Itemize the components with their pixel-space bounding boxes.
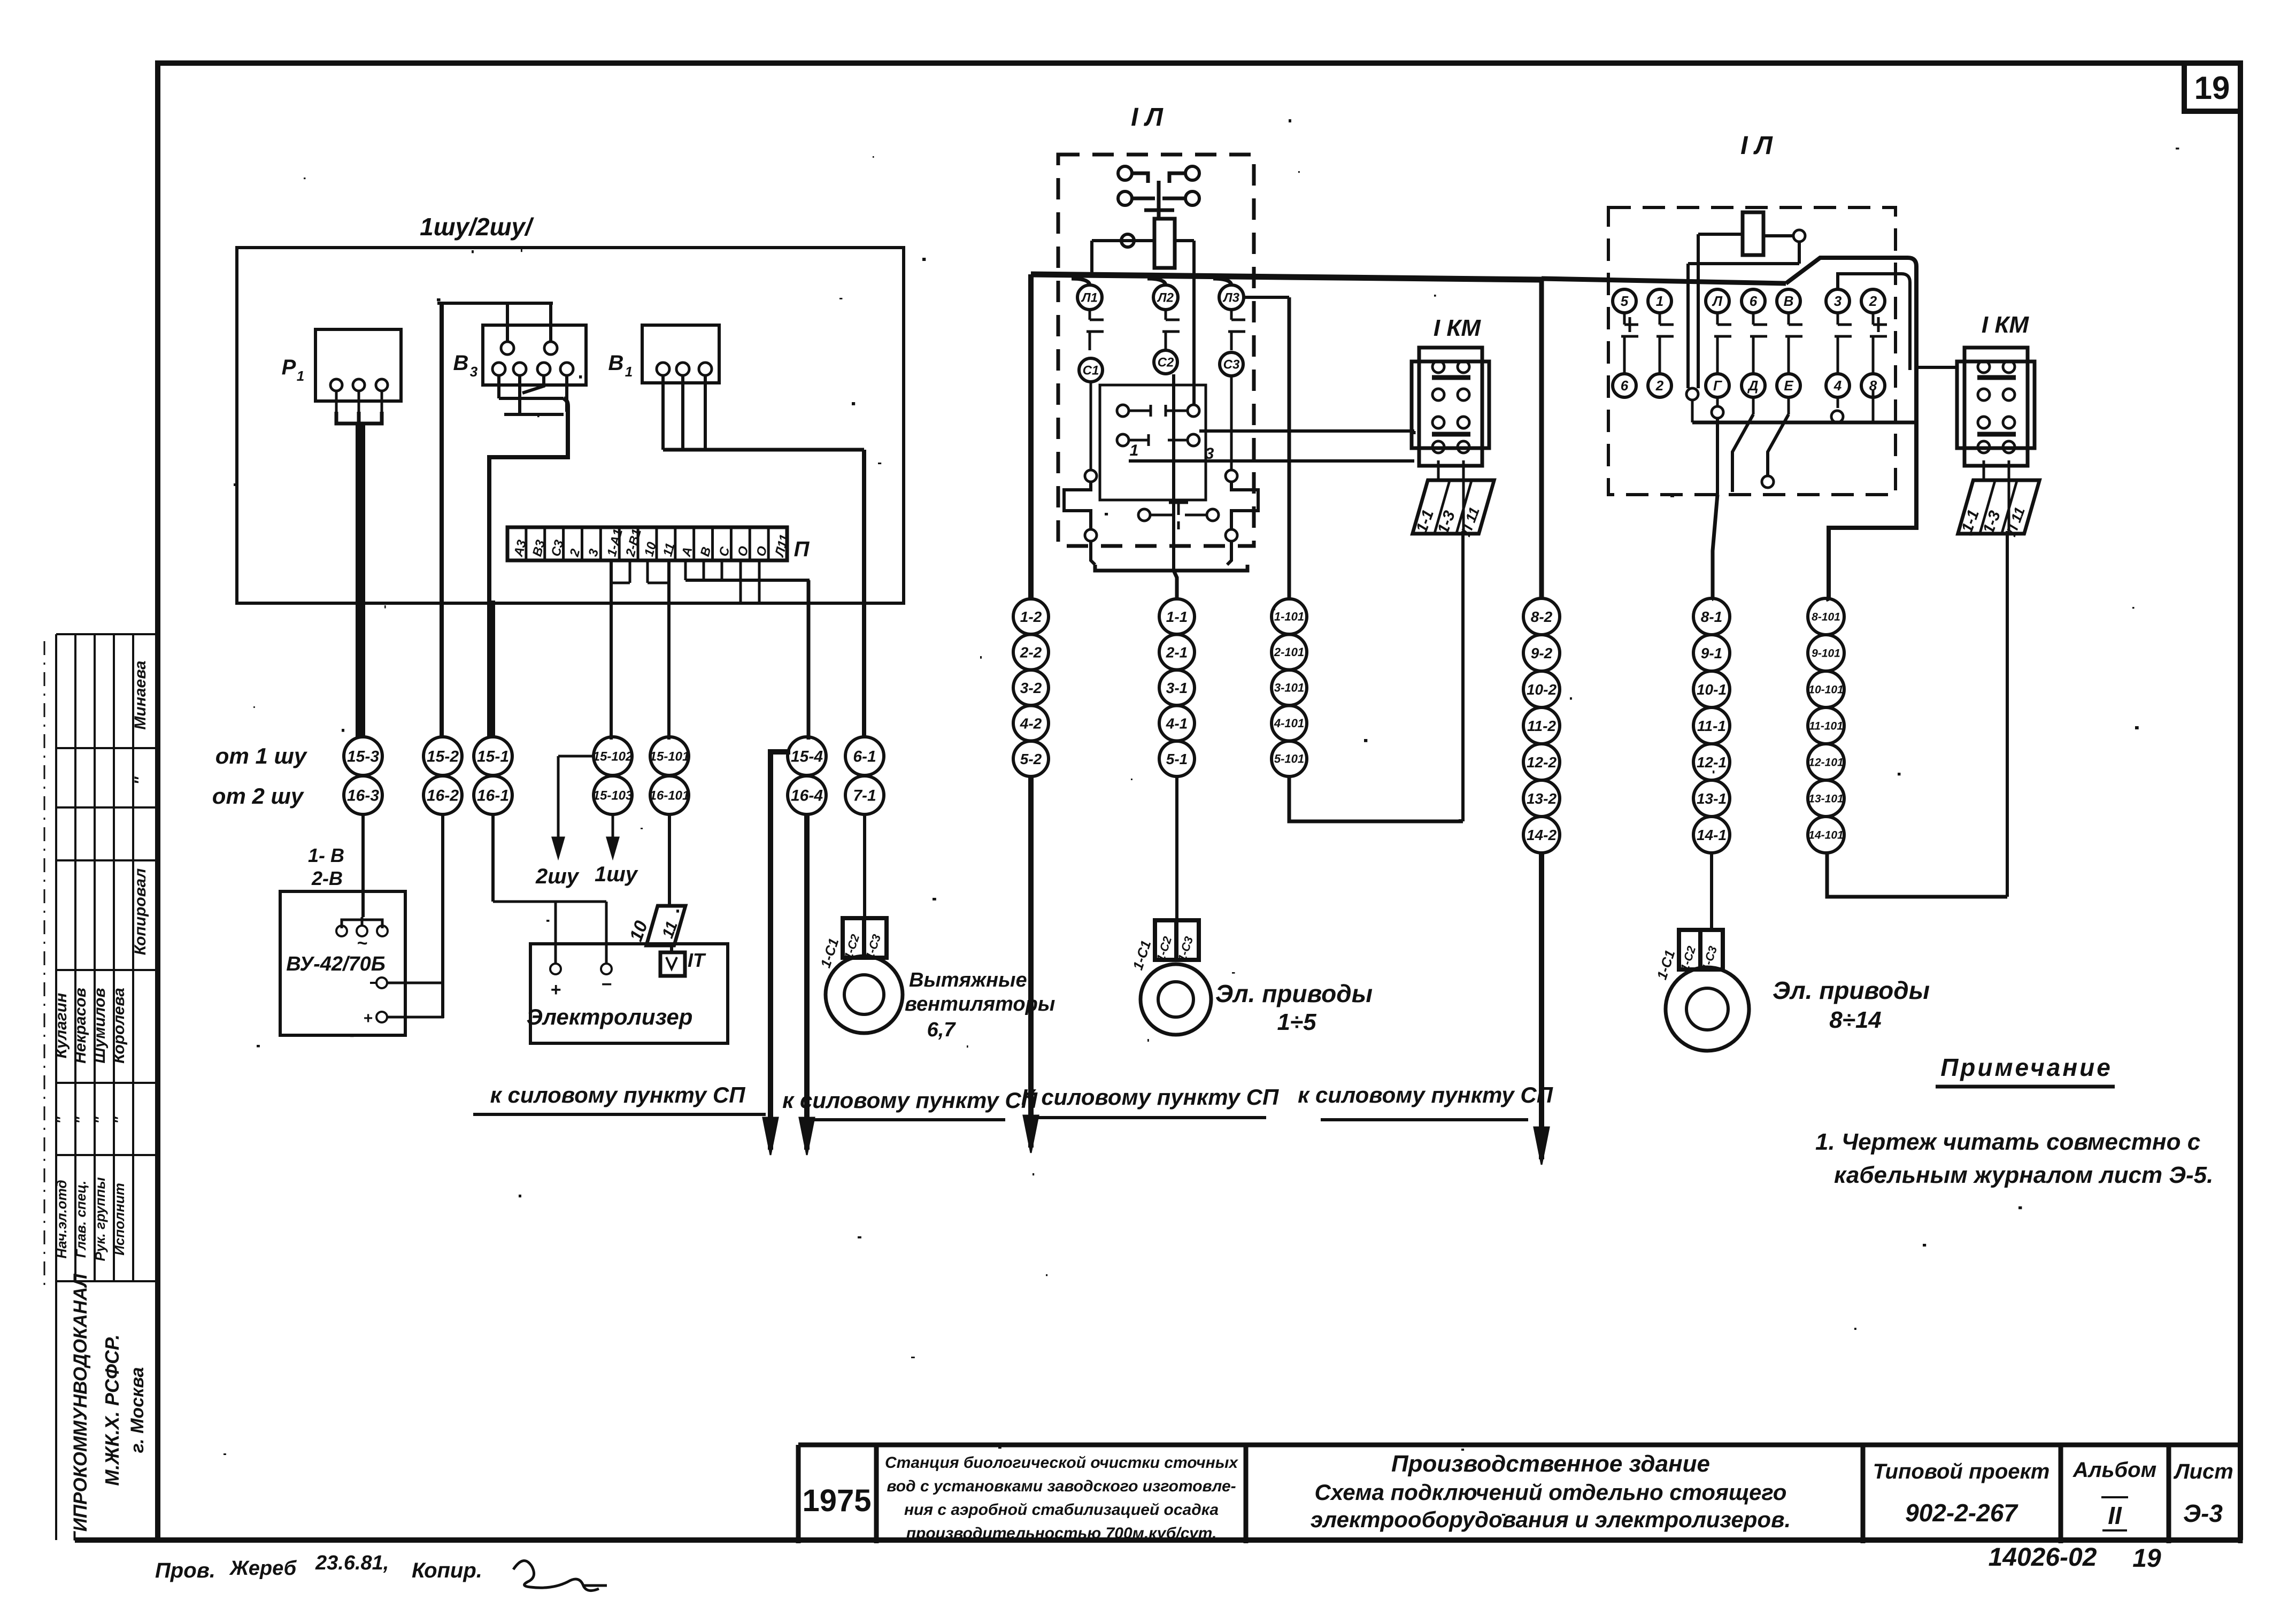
svg-text:13-1: 13-1 [1697, 790, 1727, 807]
svg-text:электрооборудования и электрол: электрооборудования и электролизеров. [1311, 1507, 1791, 1532]
svg-text:14-2: 14-2 [1527, 827, 1557, 843]
svg-text:1шу/2шу/: 1шу/2шу/ [420, 213, 534, 241]
svg-text:15-3: 15-3 [347, 748, 379, 766]
svg-text:IТ: IТ [688, 949, 706, 971]
svg-text:г. Москва: г. Москва [127, 1367, 148, 1453]
svg-text:от 2 шу: от 2 шу [212, 783, 305, 809]
svg-text:1-1: 1-1 [1166, 609, 1188, 625]
svg-text:19: 19 [2132, 1544, 2161, 1573]
svg-text:902-2-267: 902-2-267 [1905, 1499, 2018, 1527]
svg-text:1: 1 [1130, 442, 1139, 459]
svg-text:−: − [601, 974, 612, 995]
svg-text:Копир.: Копир. [412, 1559, 482, 1582]
svg-text:3-101: 3-101 [1274, 681, 1304, 695]
svg-text:3: 3 [1834, 293, 1842, 309]
svg-text:Вытяжные: Вытяжные [909, 969, 1027, 991]
svg-text:10-2: 10-2 [1527, 681, 1557, 698]
svg-text:23.6.81,: 23.6.81, [315, 1552, 389, 1574]
svg-text:2: 2 [1869, 293, 1877, 309]
svg-text:В: В [453, 351, 469, 375]
svg-text:11-2: 11-2 [1527, 718, 1556, 734]
svg-text:2шу: 2шу [535, 865, 580, 888]
svg-text:Г: Г [1713, 378, 1722, 394]
svg-text:I Л: I Л [1740, 132, 1773, 160]
svg-text:15-103: 15-103 [593, 788, 633, 803]
svg-text:7-1: 7-1 [853, 787, 876, 805]
svg-text:2-2: 2-2 [1020, 644, 1042, 660]
svg-text:С2: С2 [1158, 355, 1174, 370]
svg-text:6,7: 6,7 [927, 1019, 957, 1041]
svg-text:+: + [363, 1010, 373, 1027]
svg-text:9-2: 9-2 [1531, 645, 1553, 661]
svg-text:8-101: 8-101 [1812, 611, 1840, 623]
svg-text:к силовому пункту СП: к силовому пункту СП [782, 1088, 1038, 1113]
svg-text:Станция биологической очистки: Станция биологической очистки сточных [885, 1454, 1238, 1472]
svg-text:1: 1 [297, 368, 304, 384]
svg-text:14-101: 14-101 [1808, 829, 1843, 841]
svg-text:Л3: Л3 [1222, 290, 1239, 305]
svg-text:Некрасов: Некрасов [72, 988, 89, 1064]
svg-text:ния с аэробной стабилизацией о: ния с аэробной стабилизацией осадка [904, 1501, 1219, 1519]
svg-text:2-В: 2-В [311, 867, 343, 889]
svg-text:4-2: 4-2 [1020, 715, 1042, 732]
svg-text:6-1: 6-1 [853, 748, 876, 766]
svg-text:8-2: 8-2 [1531, 609, 1553, 625]
svg-text:производительностью 700м.куб/с: производительностью 700м.куб/сут. [906, 1525, 1217, 1542]
svg-text:Примечание: Примечание [1940, 1053, 2113, 1081]
svg-text:II: II [2108, 1502, 2122, 1529]
svg-text:К силовому пункту СП: К силовому пункту СП [1021, 1084, 1279, 1110]
svg-text:ВУ-42/70Б: ВУ-42/70Б [286, 953, 385, 975]
svg-text:12-101: 12-101 [1808, 756, 1843, 768]
svg-text:13-101: 13-101 [1808, 792, 1843, 805]
svg-text:3: 3 [470, 364, 478, 380]
svg-text:″: ″ [53, 1116, 70, 1123]
svg-text:12-2: 12-2 [1527, 754, 1557, 771]
svg-text:Альбом: Альбом [2072, 1458, 2156, 1482]
svg-text:19: 19 [2194, 70, 2230, 106]
svg-text:Королева: Королева [110, 988, 128, 1064]
svg-text:Электролизер: Электролизер [527, 1004, 693, 1029]
svg-text:15-4: 15-4 [791, 748, 823, 766]
svg-text:Рук. группы: Рук. группы [92, 1177, 108, 1261]
svg-text:″: ″ [92, 1116, 108, 1123]
svg-text:Р: Р [282, 356, 296, 379]
svg-text:от 1 шу: от 1 шу [215, 743, 308, 768]
svg-text:Шумилов: Шумилов [91, 988, 109, 1063]
svg-text:I КМ: I КМ [1434, 315, 1481, 341]
svg-text:16-101: 16-101 [650, 788, 690, 803]
svg-text:6: 6 [1621, 378, 1629, 394]
svg-text:Л2: Л2 [1157, 290, 1174, 305]
svg-text:3-1: 3-1 [1166, 680, 1188, 696]
svg-text:+: + [550, 980, 561, 1000]
svg-text:Исполнит: Исполнит [111, 1183, 127, 1256]
svg-text:″: ″ [111, 1116, 127, 1123]
svg-text:вод с установками заводского и: вод с установками заводского изготовле- [887, 1477, 1236, 1495]
svg-text:16-2: 16-2 [427, 787, 459, 805]
svg-text:11-101: 11-101 [1809, 720, 1843, 732]
svg-text:2-1: 2-1 [1166, 644, 1188, 660]
svg-text:″: ″ [132, 776, 149, 784]
svg-text:15-102: 15-102 [593, 749, 633, 764]
svg-text:″: ″ [73, 1116, 89, 1123]
svg-text:ГИПРОКОММУНВОДОКАНАЛ: ГИПРОКОММУНВОДОКАНАЛ [70, 1273, 91, 1543]
svg-text:Э-3: Э-3 [2183, 1499, 2223, 1527]
svg-text:15-1: 15-1 [477, 748, 509, 766]
svg-text:1шу: 1шу [595, 863, 638, 886]
svg-text:Эл. приводы: Эл. приводы [1773, 976, 1930, 1004]
svg-text:В: В [608, 351, 624, 375]
svg-text:5-1: 5-1 [1166, 751, 1188, 767]
svg-text:6: 6 [1750, 293, 1758, 309]
svg-text:Типовой проект: Типовой проект [1873, 1460, 2050, 1483]
svg-text:4-101: 4-101 [1274, 717, 1304, 730]
svg-text:10-101: 10-101 [1808, 683, 1843, 696]
svg-text:Д: Д [1747, 378, 1759, 394]
svg-text:к силовому пункту СП: к силовому пункту СП [490, 1082, 746, 1107]
svg-text:14026-02: 14026-02 [1989, 1543, 2097, 1572]
svg-text:Минаева: Минаева [132, 660, 149, 729]
svg-text:8-1: 8-1 [1701, 609, 1722, 625]
svg-text:Жереб: Жереб [229, 1557, 297, 1580]
svg-text:Кулагин: Кулагин [52, 993, 70, 1059]
svg-text:10-1: 10-1 [1697, 681, 1727, 698]
svg-text:Пров.: Пров. [155, 1559, 215, 1582]
svg-text:С3: С3 [1223, 357, 1240, 372]
svg-text:15-101: 15-101 [650, 749, 690, 764]
svg-text:12-1: 12-1 [1697, 754, 1727, 771]
svg-text:Производственное здание: Производственное здание [1391, 1451, 1710, 1477]
svg-text:9-1: 9-1 [1701, 645, 1722, 661]
svg-text:Е: Е [1784, 378, 1793, 394]
svg-text:Л1: Л1 [1081, 290, 1098, 305]
svg-text:М.ЖК.Х. РСФСР.: М.ЖК.Х. РСФСР. [101, 1334, 123, 1486]
svg-text:Схема подключений отдельно сто: Схема подключений отдельно стоящего [1315, 1480, 1787, 1505]
svg-text:1. Чертеж читать совместно с: 1. Чертеж читать совместно с [1815, 1129, 2200, 1155]
svg-text:8÷14: 8÷14 [1829, 1007, 1882, 1033]
svg-text:1- В: 1- В [308, 844, 344, 866]
svg-text:В: В [1784, 293, 1794, 309]
svg-text:2: 2 [1655, 378, 1664, 394]
svg-text:16-1: 16-1 [477, 787, 509, 805]
svg-text:к силовому пункту СП: к силовому пункту СП [1298, 1082, 1553, 1107]
svg-text:I КМ: I КМ [1982, 312, 2029, 338]
svg-text:5-2: 5-2 [1020, 751, 1042, 767]
svg-text:С1: С1 [1083, 363, 1099, 378]
svg-text:Копировал: Копировал [132, 868, 149, 955]
svg-text:~: ~ [357, 933, 367, 953]
svg-text:9-101: 9-101 [1812, 647, 1840, 659]
svg-text:16-3: 16-3 [347, 787, 379, 805]
svg-text:Глав. спец.: Глав. спец. [73, 1181, 89, 1258]
svg-text:Нач.эл.отд: Нач.эл.отд [53, 1180, 70, 1258]
svg-text:4: 4 [1833, 378, 1842, 394]
svg-text:1: 1 [1656, 293, 1663, 309]
svg-text:Л: Л [1712, 293, 1723, 309]
svg-text:П: П [794, 537, 810, 561]
svg-text:1÷5: 1÷5 [1277, 1009, 1316, 1035]
svg-text:Лист: Лист [2173, 1460, 2233, 1483]
svg-text:2-101: 2-101 [1274, 645, 1304, 659]
svg-text:5-101: 5-101 [1274, 752, 1304, 766]
svg-text:I Л: I Л [1131, 103, 1164, 132]
svg-text:1-101: 1-101 [1274, 610, 1304, 624]
svg-text:15-2: 15-2 [427, 748, 459, 766]
svg-text:1: 1 [625, 364, 633, 380]
svg-text:14-1: 14-1 [1697, 827, 1727, 843]
svg-text:16-4: 16-4 [791, 787, 823, 805]
svg-text:1975: 1975 [802, 1483, 871, 1518]
svg-text:13-2: 13-2 [1527, 790, 1557, 807]
svg-text:11-1: 11-1 [1697, 718, 1726, 734]
svg-text:Эл. приводы: Эл. приводы [1215, 980, 1373, 1007]
svg-text:1-2: 1-2 [1020, 609, 1042, 625]
svg-text:3-2: 3-2 [1020, 680, 1042, 696]
svg-text:5: 5 [1621, 293, 1629, 309]
svg-text:4-1: 4-1 [1166, 715, 1188, 732]
svg-text:кабельным журналом лист Э-5.: кабельным журналом лист Э-5. [1834, 1162, 2213, 1188]
